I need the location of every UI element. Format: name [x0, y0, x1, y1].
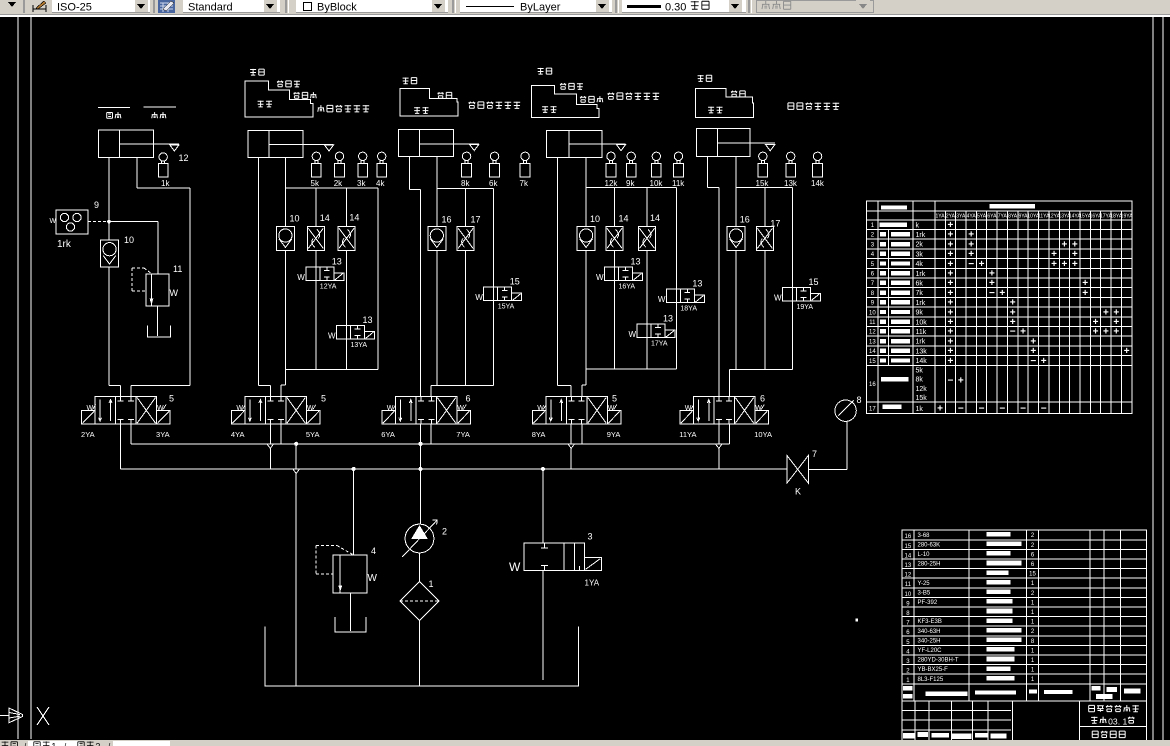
svg-text:13YA: 13YA	[351, 342, 368, 349]
wire cap-side G3	[409, 157, 420, 397]
svg-text:280YD-30BH-T: 280YD-30BH-T	[918, 658, 959, 664]
measuring point 13k	[784, 152, 798, 188]
svg-text:14k: 14k	[916, 358, 928, 365]
svg-text:L-10: L-10	[918, 552, 931, 558]
valve3 P drop / pump line	[419, 424, 422, 524]
svg-text:7: 7	[812, 449, 817, 459]
hydraulic cylinder G5	[697, 129, 751, 157]
svg-text:−: −	[1010, 327, 1016, 338]
measuring point 8k	[461, 152, 472, 188]
svg-text:17: 17	[869, 407, 876, 413]
measuring point 6k	[489, 152, 500, 188]
check valve 10 G2	[276, 214, 299, 251]
svg-text:13k: 13k	[916, 348, 928, 355]
svg-text:13: 13	[692, 279, 702, 289]
svg-text:W: W	[596, 273, 604, 282]
pressure gauge 8	[835, 395, 862, 421]
svg-text:W: W	[457, 405, 464, 412]
check valve 10 G4	[577, 214, 600, 250]
svg-text:17YA: 17YA	[651, 341, 668, 348]
svg-text:W: W	[328, 332, 336, 341]
svg-text:1YA: 1YA	[936, 214, 946, 220]
hydraulic cylinder G3	[398, 130, 453, 157]
solenoid valve 5 (2YA/3YA)	[81, 394, 174, 439]
svg-text:2YA: 2YA	[946, 214, 956, 220]
svg-text:5: 5	[169, 394, 174, 404]
sequence table row 16	[869, 367, 964, 402]
svg-text:11: 11	[905, 582, 912, 588]
valve2 P drop	[267, 424, 274, 469]
svg-text:+: +	[1113, 327, 1119, 338]
svg-text:13: 13	[631, 257, 641, 267]
svg-text:3-B5: 3-B5	[918, 590, 931, 596]
svg-text:W: W	[629, 330, 637, 339]
svg-text:3YA: 3YA	[156, 430, 170, 439]
solenoid valve 13 (13YA)	[328, 315, 375, 370]
svg-text:13: 13	[869, 339, 876, 345]
svg-text:−: −	[958, 403, 964, 414]
svg-text:5: 5	[321, 394, 326, 404]
sequence table row 17	[869, 403, 1047, 414]
svg-text:2k: 2k	[334, 179, 343, 188]
svg-text:10: 10	[590, 214, 600, 224]
svg-text:12: 12	[905, 573, 912, 579]
svg-text:5k: 5k	[311, 179, 320, 188]
svg-text:13k: 13k	[784, 179, 798, 188]
svg-text:6: 6	[466, 394, 471, 404]
svg-text:7YA: 7YA	[456, 430, 470, 439]
svg-text:+: +	[1103, 327, 1109, 338]
svg-text:+: +	[1124, 346, 1130, 357]
svg-text:+: +	[1072, 259, 1078, 270]
throttle valve 14a G2	[307, 188, 330, 267]
hydraulic cylinder G4	[547, 131, 602, 158]
bypass wire G3	[493, 189, 495, 386]
svg-text:K: K	[795, 487, 801, 497]
wire cap-side G2	[258, 157, 270, 396]
title block grid	[902, 701, 1146, 740]
rod line G3	[453, 143, 479, 145]
svg-text:2YA: 2YA	[81, 430, 95, 439]
measuring point 14k	[811, 152, 825, 188]
svg-text:4YA: 4YA	[231, 430, 245, 439]
svg-text:9k: 9k	[916, 310, 924, 317]
wire pump to filter	[419, 553, 421, 582]
throttle valve 14b G4	[639, 188, 661, 324]
svg-text:+: +	[958, 376, 964, 387]
svg-text:14: 14	[349, 213, 359, 223]
measuring point 3k	[357, 152, 368, 188]
svg-text:340-63H: 340-63H	[918, 629, 941, 635]
solenoid valve 5 (4YA/5YA)	[231, 394, 326, 439]
svg-text:14: 14	[905, 553, 912, 559]
svg-text:5YA: 5YA	[306, 430, 320, 439]
wire valve3 to tank	[542, 570, 544, 680]
svg-text:W: W	[307, 405, 314, 412]
svg-text:1rk: 1rk	[916, 232, 926, 239]
svg-text:W: W	[537, 405, 544, 412]
svg-text:15: 15	[510, 277, 520, 287]
svg-text:10k: 10k	[916, 319, 928, 326]
svg-text:12k: 12k	[605, 179, 619, 188]
svg-text:YB-BX25-F: YB-BX25-F	[918, 667, 949, 673]
svg-text:13: 13	[905, 563, 912, 569]
svg-text:10k: 10k	[650, 179, 664, 188]
svg-text:1rk: 1rk	[916, 339, 926, 346]
svg-text:+: +	[937, 403, 943, 414]
svg-text:−: −	[1030, 356, 1036, 367]
svg-text:1rk: 1rk	[916, 300, 926, 307]
svg-text:Y-25: Y-25	[918, 581, 931, 587]
rod line G2	[303, 143, 334, 145]
svg-text:13: 13	[363, 315, 373, 325]
solenoid valve 5 (8YA/9YA)	[532, 394, 621, 439]
electromagnet sequence table grid	[867, 201, 1132, 413]
valve1 T drop	[130, 424, 132, 444]
UCS icon	[0, 707, 49, 725]
svg-text:6: 6	[760, 394, 765, 404]
svg-text:1: 1	[1123, 716, 1128, 726]
svg-text:6YA: 6YA	[987, 214, 997, 220]
wire cap-side G1	[109, 157, 121, 396]
svg-text:+: +	[999, 288, 1005, 299]
blip mark	[856, 618, 858, 621]
svg-text:+: +	[1093, 327, 1099, 338]
svg-text:1rk: 1rk	[916, 271, 926, 278]
svg-text:KF3-E3B: KF3-E3B	[918, 619, 942, 625]
svg-text:PF-392: PF-392	[918, 600, 938, 606]
svg-text:340-25H: 340-25H	[918, 638, 941, 644]
svg-text:15: 15	[869, 359, 876, 365]
valve2 T drop	[280, 424, 282, 444]
wire cap-side G4	[558, 157, 572, 396]
measuring point 15k	[756, 152, 770, 188]
valve5 T drop	[728, 424, 730, 444]
svg-text:2: 2	[442, 527, 447, 537]
svg-text:1k: 1k	[916, 406, 924, 413]
svg-text:1rk: 1rk	[57, 239, 72, 250]
merge wire G4	[582, 369, 677, 396]
merge wire G5	[730, 370, 793, 397]
measuring point 1k	[158, 153, 170, 188]
branch bus G4	[586, 187, 676, 189]
svg-text:Standard: Standard	[188, 2, 233, 14]
svg-text:16YA: 16YA	[619, 284, 636, 291]
svg-text:+: +	[1020, 327, 1026, 338]
svg-text:W: W	[368, 573, 378, 584]
svg-text:W: W	[475, 293, 483, 302]
measuring point 12k	[605, 152, 619, 188]
svg-text:0.30: 0.30	[665, 2, 686, 14]
measuring point 4k	[376, 152, 387, 188]
svg-text:−: −	[979, 403, 985, 414]
svg-text:8YA: 8YA	[1008, 214, 1018, 220]
svg-text:10YA: 10YA	[754, 430, 772, 439]
svg-text:11: 11	[869, 320, 876, 326]
svg-text:3k: 3k	[357, 179, 366, 188]
svg-text:W: W	[50, 218, 57, 225]
svg-text:8: 8	[857, 395, 862, 405]
svg-text:+: +	[1062, 239, 1068, 250]
svg-text:−: −	[968, 259, 974, 270]
relief valve 4 branch	[316, 467, 377, 593]
valve3 T drop	[430, 424, 432, 444]
svg-text:1YA: 1YA	[585, 579, 600, 588]
bypass wire G4	[675, 188, 677, 369]
check valve 10 G1	[101, 235, 135, 267]
valve4 T drop	[581, 424, 583, 444]
check valve 16 G5	[727, 215, 750, 251]
svg-text:3-68: 3-68	[918, 533, 931, 539]
drain triangle G5	[766, 145, 775, 151]
svg-text:4: 4	[371, 546, 376, 556]
svg-text:W: W	[87, 405, 94, 412]
svg-text:W: W	[387, 405, 394, 412]
rod line G1	[154, 143, 179, 145]
tank return drop	[293, 442, 300, 686]
P pressure bus	[121, 468, 787, 470]
pump 2	[402, 520, 447, 557]
svg-text:W: W	[658, 295, 666, 304]
cycle diagram front head	[245, 69, 369, 117]
svg-text:11YA: 11YA	[679, 430, 696, 439]
check valve 16 G3	[428, 215, 452, 251]
svg-text:+: +	[979, 259, 985, 270]
shut-off valve 7 K	[787, 449, 817, 497]
svg-text:11k: 11k	[672, 179, 685, 188]
svg-text:.: .	[1118, 716, 1120, 726]
svg-text:6YA: 6YA	[381, 430, 395, 439]
svg-text:W: W	[170, 288, 179, 298]
drawing title	[1092, 731, 1125, 738]
svg-text:W: W	[297, 273, 305, 282]
svg-text:10: 10	[290, 214, 300, 224]
svg-text:+: +	[1041, 356, 1047, 367]
cycle diagram rear head	[532, 68, 660, 117]
svg-text:4YA: 4YA	[967, 214, 977, 220]
drain triangle G2	[324, 145, 333, 151]
svg-text:2: 2	[95, 742, 100, 746]
sheet border right lines	[1153, 17, 1163, 740]
svg-text:6k: 6k	[916, 280, 924, 287]
tank symbol under valve 11	[148, 306, 171, 337]
sheet border left lines	[18, 17, 31, 739]
pilot wire 1rk dashed	[88, 220, 158, 223]
svg-text:W: W	[774, 293, 782, 302]
measuring point 9k G4	[626, 152, 636, 188]
svg-text:16: 16	[740, 215, 750, 225]
svg-text:3YA: 3YA	[956, 214, 966, 220]
svg-text:10: 10	[869, 310, 876, 316]
svg-text:5YA: 5YA	[977, 214, 987, 220]
svg-text:9YA: 9YA	[607, 430, 621, 439]
svg-text:4k: 4k	[376, 179, 385, 188]
measuring point 2k	[334, 152, 345, 188]
wire valve7 to gauge	[809, 421, 848, 469]
svg-text:−: −	[948, 376, 954, 387]
svg-text:ISO-25: ISO-25	[57, 2, 92, 14]
solenoid valve 6 (11YA/10YA)	[679, 394, 772, 439]
svg-text:12: 12	[869, 330, 876, 336]
svg-text:17: 17	[471, 215, 481, 225]
svg-text:8k: 8k	[916, 377, 924, 384]
drain triangle 12	[170, 145, 189, 163]
svg-text:12k: 12k	[916, 386, 928, 393]
svg-text:+: +	[948, 356, 954, 367]
svg-text:15: 15	[905, 544, 912, 550]
merge wire G3	[431, 385, 494, 396]
drain triangle G3	[470, 144, 479, 150]
svg-text:280-25H: 280-25H	[918, 562, 941, 568]
svg-text:7YA: 7YA	[998, 214, 1008, 220]
branch bus G3	[437, 188, 494, 190]
svg-text:W: W	[157, 405, 164, 412]
svg-text:10: 10	[124, 235, 134, 245]
svg-text:1: 1	[51, 742, 56, 746]
rod line G5	[750, 142, 775, 144]
hydraulic cylinder G2	[248, 130, 303, 157]
solenoid valve 13 (16YA)	[596, 257, 643, 370]
throttle valve 14a G4	[606, 188, 629, 267]
svg-text:1k: 1k	[161, 179, 170, 188]
wire rod-side G2	[284, 157, 286, 369]
svg-text:16: 16	[442, 215, 452, 225]
svg-text:8k: 8k	[461, 179, 470, 188]
wire rod-side G1	[131, 157, 190, 396]
svg-text:−: −	[1020, 403, 1026, 414]
BOM header band blocks	[903, 686, 1140, 699]
valve5 P drop	[715, 424, 722, 469]
svg-text:12YA: 12YA	[320, 284, 337, 291]
svg-text:8L3-F125: 8L3-F125	[918, 677, 944, 683]
throttle valve 14b G2	[338, 188, 359, 326]
svg-text:15k: 15k	[916, 395, 928, 402]
main tank	[265, 627, 579, 687]
toolbar	[0, 0, 1170, 17]
svg-text:13: 13	[663, 314, 673, 324]
svg-text:ByLayer: ByLayer	[520, 2, 561, 14]
school name text	[1089, 705, 1139, 726]
valve1 P drop	[120, 424, 122, 469]
wire rod-side G4	[585, 157, 587, 369]
svg-text:15: 15	[809, 277, 819, 287]
svg-text:7k: 7k	[916, 290, 924, 297]
svg-text:W: W	[755, 405, 762, 412]
BOM table rows	[905, 532, 1037, 684]
svg-text:14: 14	[320, 213, 330, 223]
svg-text:14: 14	[650, 213, 660, 223]
svg-text:5: 5	[612, 394, 617, 404]
svg-text:1: 1	[429, 579, 434, 589]
cycle diagram right head	[696, 75, 839, 117]
solenoid valve 15 (19YA)	[774, 277, 821, 311]
svg-text:16: 16	[905, 534, 912, 540]
svg-text:10: 10	[905, 592, 912, 598]
wire rod-side G5	[735, 156, 737, 369]
svg-text:11: 11	[173, 264, 182, 274]
svg-text:9: 9	[94, 200, 99, 210]
svg-text:2k: 2k	[916, 242, 924, 249]
branch bus G5	[736, 187, 792, 189]
svg-text:17: 17	[770, 218, 780, 228]
BOM table grid	[902, 530, 1146, 701]
measuring point 5k	[311, 152, 322, 188]
valve4 P drop	[568, 424, 575, 469]
svg-text:+: +	[1082, 288, 1088, 299]
svg-text:19YA: 19YA	[797, 304, 814, 311]
svg-text:W: W	[236, 405, 243, 412]
unloading valve 3 (1YA)	[509, 467, 601, 587]
solenoid valve 13 (12YA)	[297, 257, 344, 370]
svg-text:14: 14	[869, 349, 876, 355]
svg-text:5k: 5k	[916, 367, 924, 374]
rod line G4	[602, 143, 626, 145]
svg-text:14: 14	[619, 214, 629, 224]
tank symbol under valve 4	[335, 593, 366, 632]
svg-text:+: +	[1051, 259, 1057, 270]
svg-text:13: 13	[332, 257, 342, 267]
svg-text:+: +	[1103, 307, 1109, 318]
svg-text:7k: 7k	[520, 179, 529, 188]
solenoid valve 13 (17YA)	[629, 314, 676, 370]
pressure reducing unit 1rk (9)	[50, 200, 100, 250]
svg-text:−: −	[1041, 403, 1047, 414]
sequence table rows 1-15	[869, 220, 1130, 367]
bypass wire G5	[792, 188, 794, 370]
solenoid valve 6 (6YA/7YA)	[381, 394, 470, 439]
svg-text:15: 15	[1029, 572, 1036, 578]
measuring point 7k	[520, 152, 531, 188]
svg-text:16: 16	[869, 382, 876, 388]
solenoid valve 13 (18YA)	[658, 279, 705, 313]
svg-text:k: k	[916, 222, 920, 229]
wire filter to tank	[419, 621, 421, 687]
svg-text:W: W	[608, 405, 615, 412]
hydraulic cylinder G1	[98, 130, 153, 157]
wire rod-side G3	[436, 157, 438, 386]
T return bus	[131, 443, 729, 445]
bypass wire G2	[377, 188, 379, 370]
svg-text:W: W	[509, 560, 521, 574]
svg-text:6k: 6k	[489, 179, 498, 188]
throttle valve 17 G5	[756, 188, 780, 370]
cycle diagram left head	[400, 77, 520, 115]
drain triangle G4	[616, 145, 625, 151]
svg-text:4k: 4k	[916, 261, 924, 268]
svg-text:11k: 11k	[916, 329, 927, 336]
svg-text:8YA: 8YA	[532, 430, 546, 439]
bottom tab bar	[0, 740, 1170, 746]
svg-text:−: −	[999, 403, 1005, 414]
svg-text:19YA: 19YA	[1121, 214, 1134, 220]
svg-text:W: W	[685, 405, 692, 412]
svg-text:12: 12	[179, 153, 189, 163]
svg-text:+: +	[1062, 259, 1068, 270]
svg-text:ByBlock: ByBlock	[317, 2, 357, 14]
relief valve 11	[132, 222, 182, 306]
merge wire G2	[281, 370, 378, 397]
svg-text:3k: 3k	[916, 251, 924, 258]
solenoid valve 15 (15YA)	[475, 277, 522, 311]
svg-text:280-63K: 280-63K	[918, 542, 941, 548]
svg-text:−: −	[989, 288, 995, 299]
filter 1	[400, 579, 439, 621]
branch bus G2	[285, 187, 378, 189]
svg-text:YF-L20C: YF-L20C	[918, 648, 943, 654]
wire cap-side G5	[708, 156, 719, 396]
sequence table column headers	[936, 214, 1134, 220]
svg-text:18YA: 18YA	[680, 306, 697, 313]
